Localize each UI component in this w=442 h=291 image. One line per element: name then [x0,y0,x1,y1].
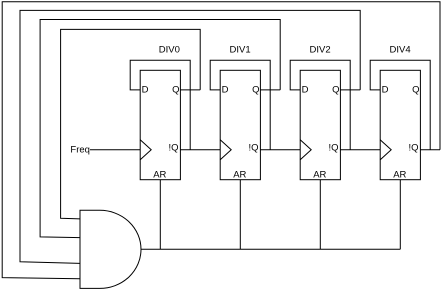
wire AR pin of DIV0 to reset bus [159,180,161,250]
svg-text:DIV1: DIV1 [230,45,251,56]
svg-text:AR: AR [233,170,246,181]
wire Q of DIV0 to AND gate input 1 [61,29,201,219]
svg-text:!Q: !Q [328,142,338,153]
svg-text:Freq: Freq [70,144,90,155]
feedback wire !Q to D of DIV2 [290,60,350,150]
svg-text:Q: Q [412,85,419,96]
svg-text:D: D [222,85,229,96]
wire Q out of DIV0 [180,89,200,91]
wire !Q of DIV2 to clock of DIV4 [340,149,380,151]
svg-text:DIV4: DIV4 [390,45,411,56]
wire Q of DIV1 to AND gate input 2 [40,20,280,238]
wire Q of DIV2 to AND gate input 3 [20,10,360,263]
svg-text:AR: AR [153,170,166,181]
feedback wire !Q to D of DIV0 [130,60,190,150]
feedback wire !Q to D of DIV4 [370,60,430,150]
svg-text:!Q: !Q [248,142,258,153]
svg-text:D: D [302,85,309,96]
flip-flop DIV4 clock triangle [380,140,391,160]
AND gate [80,210,141,288]
flip-flop DIV2 clock triangle [300,140,311,160]
svg-text:Q: Q [252,85,259,96]
wire Q out of DIV2 [340,89,360,91]
wire !Q of DIV0 to clock of DIV1 [180,149,220,151]
svg-text:AR: AR [393,170,406,181]
flip-flop DIV4 body [380,70,420,179]
svg-text:D: D [142,85,149,96]
wire AR pin of DIV1 to reset bus [239,180,241,250]
flip-flop DIV2 body [300,70,340,179]
flip-flop DIV1 body [220,70,260,179]
svg-text:!Q: !Q [408,142,418,153]
svg-text:DIV2: DIV2 [310,45,331,56]
svg-text:Q: Q [332,85,339,96]
wire AR pin of DIV2 to reset bus [319,180,321,250]
flip-flop DIV0 body [140,70,180,179]
svg-text:!Q: !Q [168,142,178,153]
wire AR pin of DIV4 to reset bus [399,180,401,250]
svg-text:Q: Q [172,85,179,96]
wire Freq to clock of DIV0 [90,149,140,151]
svg-text:D: D [382,85,389,96]
svg-text:DIV0: DIV0 [159,45,180,56]
wire !Q of DIV1 to clock of DIV2 [260,149,300,151]
svg-text:AR: AR [313,170,326,181]
wire AND gate output reset bus [141,248,400,250]
flip-flop DIV0 clock triangle [140,140,151,160]
wire Q out of DIV1 [260,89,280,91]
feedback wire !Q to D of DIV1 [210,60,270,150]
flip-flop DIV1 clock triangle [220,140,231,160]
wire !Q out of DIV4 [420,149,440,151]
